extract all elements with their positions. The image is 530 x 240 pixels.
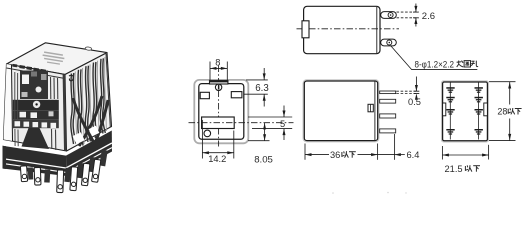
svg-text:5: 5 xyxy=(280,119,285,129)
side view: terminal pin 4 xyxy=(380,129,396,133)
side view: latch rectangle xyxy=(368,104,373,112)
dimension 21.5: extension lines xyxy=(441,146,443,160)
front face: right spring column xyxy=(51,77,58,150)
front view: right side tab xyxy=(484,103,488,116)
svg-text:6.4: 6.4 xyxy=(407,150,420,160)
pins: back row (dark) xyxy=(28,150,108,183)
front view: left side tab xyxy=(443,103,446,116)
relay pictorial: top face xyxy=(7,43,108,75)
front face: left highlight column xyxy=(4,64,13,141)
svg-text:21.5: 21.5 xyxy=(445,164,463,174)
side view: body outline xyxy=(304,81,377,141)
side view: terminal pin 1 xyxy=(380,91,396,94)
relay pictorial: front-left face xyxy=(4,64,67,151)
top face: small oval mark xyxy=(85,47,92,51)
svg-text:8-φ1.2×2.2: 8-φ1.2×2.2 xyxy=(415,60,455,70)
top view: body outline xyxy=(304,6,380,53)
base: right face separators xyxy=(66,143,112,168)
pin R3 xyxy=(475,109,483,115)
svg-text:14.2: 14.2 xyxy=(208,154,226,164)
bottom view: body outline xyxy=(199,84,244,140)
right face: lower bold spring curves xyxy=(73,96,108,146)
front face: lower block row with white windows xyxy=(13,110,59,120)
top face: faint marking text xyxy=(43,51,65,64)
side view: outer shadow xyxy=(303,80,379,142)
front face: top edge inner line xyxy=(7,68,66,79)
pin R2 xyxy=(475,97,483,103)
side view: inner right edge line xyxy=(374,82,376,141)
top view: lower hole circle xyxy=(387,40,392,45)
front view: outer shadow xyxy=(442,81,489,142)
bottom view: right slot xyxy=(231,92,242,98)
pin L4 xyxy=(446,129,454,135)
dimension 6.3: arrows xyxy=(263,68,265,80)
right face: white terminal block accents xyxy=(73,132,85,144)
dimension 8.05: extension line xyxy=(248,140,270,142)
top view: left latch rectangle xyxy=(302,21,309,38)
dimension 8: dimension line with arrows xyxy=(210,67,227,69)
dimension 36: dimension line with arrows xyxy=(305,154,329,156)
faint page specks xyxy=(332,192,406,194)
dimension 28: vertical line with arrows xyxy=(509,82,511,105)
base: right face bands xyxy=(66,131,112,177)
right face: inner edge line near right xyxy=(106,54,110,128)
bottom view: center oblong hole xyxy=(202,117,235,129)
top view: upper oblong hole xyxy=(381,12,397,19)
pins: front row blades with holes xyxy=(20,159,100,192)
svg-text:8: 8 xyxy=(215,58,220,68)
dimension 14.2: extension lines xyxy=(201,120,203,159)
top view: upper hole circle xyxy=(388,13,393,18)
svg-text:8.05: 8.05 xyxy=(254,154,273,165)
relay pictorial: right face xyxy=(65,53,112,151)
side view: terminal pin 2 xyxy=(380,99,396,103)
front face: middle band with screw xyxy=(13,100,59,110)
dimension 5: extension lines xyxy=(248,116,292,118)
front view: body outline xyxy=(443,82,488,141)
bottom view: horizontal dash-dot centerline xyxy=(189,122,294,124)
dimension 8.05: dimension line with arrows xyxy=(264,123,266,141)
front face: upper mechanism block xyxy=(20,71,48,100)
front face: terminal row xyxy=(13,120,59,128)
right face: contact springs xyxy=(71,58,105,146)
top face: vent marks xyxy=(12,64,46,73)
top view: lower oblong hole xyxy=(381,39,397,46)
pin L2 xyxy=(446,97,454,103)
hole label CJK: chang yuan kong xyxy=(457,61,464,68)
front face: left springs xyxy=(15,72,18,146)
front view: right pin column line xyxy=(478,83,480,140)
dimension 0.5: vertical line with arrows xyxy=(415,77,417,92)
bottom view: left slot xyxy=(200,92,209,98)
bottom view: outer case outline (gray) xyxy=(194,80,248,143)
pin R4 xyxy=(475,129,483,135)
dimension 8: extension lines xyxy=(209,62,211,81)
pin L3 xyxy=(446,109,454,115)
dimension 6.4: dimension line with arrow xyxy=(378,154,395,156)
svg-text:6.3: 6.3 xyxy=(255,83,268,94)
bottom view: small hole xyxy=(204,130,211,137)
bottom view: center dash-dot line (vertical) xyxy=(218,66,220,147)
svg-text:28: 28 xyxy=(497,107,507,117)
front face: coil yoke above base xyxy=(22,128,50,149)
dimension 36: extension lines xyxy=(304,144,306,160)
bottom view: top tab xyxy=(210,81,228,84)
bottom view: top circle with slot xyxy=(215,84,221,90)
base: left edge cap xyxy=(3,146,7,169)
right face: spring hook detail xyxy=(69,75,73,81)
leader line for oblong holes xyxy=(391,46,478,70)
side view: terminal pin 3 xyxy=(380,114,396,118)
svg-text:36: 36 xyxy=(330,150,340,160)
dimension 2.6: vertical line with outside arrows and ticks xyxy=(415,4,417,13)
dimension 6.3: extension lines xyxy=(246,79,268,81)
top view: inner right edge line xyxy=(376,7,378,53)
corner edge band between faces xyxy=(63,74,67,151)
base: left face bands xyxy=(3,146,67,176)
pin R1 xyxy=(475,87,483,93)
dimension 5: arrows xyxy=(283,106,285,118)
dimension 0.5: dashed extension lines xyxy=(396,90,418,92)
pin L1 xyxy=(446,87,454,93)
svg-text:0.5: 0.5 xyxy=(408,97,421,107)
right face: thin spring lines xyxy=(75,57,106,144)
dimension 6.4: extension line xyxy=(394,134,396,160)
base: left face separators xyxy=(3,159,67,168)
front view: left pin column line xyxy=(449,83,451,140)
dimension 14.2: dimension line with arrows xyxy=(202,152,233,154)
svg-text:2.6: 2.6 xyxy=(422,11,435,22)
dimension 21.5: dimension line with arrows xyxy=(442,154,488,156)
dimension 2.6: dashed extension lines xyxy=(397,11,419,13)
dimension 28: extension lines xyxy=(489,81,516,83)
top view: horizontal dash-dot centerline xyxy=(297,28,400,30)
